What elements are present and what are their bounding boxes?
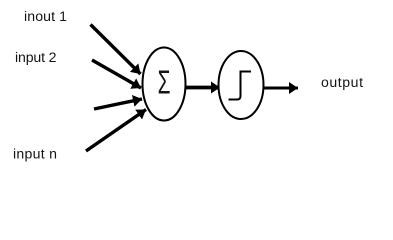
svg-text:inout 1: inout 1 [24,8,67,24]
svg-text:input n: input n [13,146,57,162]
svg-text:input 2: input 2 [15,49,57,65]
svg-text:output: output [321,74,363,90]
svg-text:Σ: Σ [158,63,171,100]
